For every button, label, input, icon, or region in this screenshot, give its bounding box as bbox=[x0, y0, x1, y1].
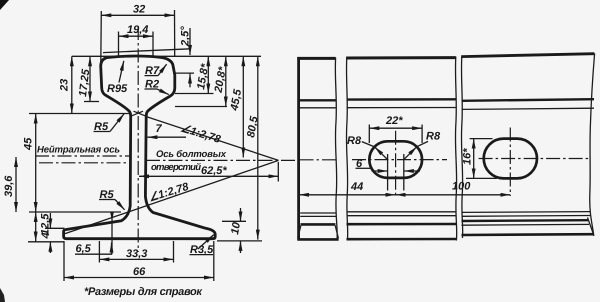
svg-text:отверстий: отверстий bbox=[151, 162, 201, 173]
svg-text:2,5°: 2,5° bbox=[180, 26, 192, 47]
panel 3 top edge bbox=[461, 54, 594, 57]
svg-text:*Размеры для справок: *Размеры для справок bbox=[84, 286, 203, 298]
scan artifact top-left corner bbox=[0, 0, 9, 10]
ext 22 left bbox=[368, 125, 370, 144]
bolt hole 2 (stadium) bbox=[484, 139, 537, 179]
svg-text:33,3: 33,3 bbox=[126, 248, 147, 260]
svg-text:62,5*: 62,5* bbox=[201, 165, 227, 177]
ext tick 17,25 bbox=[84, 101, 99, 103]
svg-text:22*: 22* bbox=[385, 115, 403, 127]
svg-text:100: 100 bbox=[452, 181, 471, 193]
6,5 underline leader bbox=[75, 246, 112, 254]
6-dim center marks bbox=[387, 154, 389, 191]
ext line 32 right bbox=[174, 10, 176, 56]
hole 1 vertical centerline bbox=[395, 131, 397, 198]
svg-text:6,5: 6,5 bbox=[75, 243, 91, 255]
panel 3 break line left bbox=[461, 57, 462, 239]
svg-text:R8: R8 bbox=[426, 131, 441, 143]
dim 4 upper seg bbox=[49, 213, 51, 228]
ext tick right of 62,5 bbox=[277, 162, 279, 182]
hole 2 horizontal centerline bbox=[479, 158, 589, 160]
svg-text:Нейтральная ось: Нейтральная ось bbox=[37, 145, 120, 156]
dim 19,4 line bbox=[119, 35, 154, 37]
scan artifact bottom-left corner bbox=[0, 288, 5, 302]
svg-text:66: 66 bbox=[133, 266, 146, 278]
bolt axis line right bbox=[146, 159, 297, 161]
panel 1 axis bbox=[300, 159, 339, 161]
panel 3 foot thin lines bbox=[462, 211, 591, 214]
panel 1 left edge (rail end face) bbox=[297, 57, 300, 241]
leader down arrow at flare bbox=[111, 212, 113, 221]
svg-text:19,4: 19,4 bbox=[127, 24, 148, 36]
svg-text:16*: 16* bbox=[462, 148, 474, 165]
svg-text:R8: R8 bbox=[347, 135, 362, 147]
dim 23 bbox=[71, 56, 73, 113]
dim 10 lower seg bbox=[240, 241, 242, 253]
panel 1 foot left flare bbox=[298, 226, 301, 239]
lower slope line 1:2,78 bbox=[64, 160, 279, 234]
leader 2,5 lower arrow bbox=[189, 74, 191, 88]
ext line below foot x=99.4 bbox=[98, 241, 100, 263]
svg-text:32: 32 bbox=[133, 4, 145, 16]
svg-text:7: 7 bbox=[155, 123, 162, 135]
panel 3 head-web line bbox=[462, 108, 595, 109]
dim 7 web with arrows bbox=[147, 136, 186, 138]
panel 1 head side edge bbox=[300, 99, 336, 101]
ext line 19,4 right bbox=[152, 32, 154, 57]
ext line 32 left bbox=[100, 11, 103, 64]
6 leader underline bbox=[356, 167, 372, 169]
dim 45 vertical bbox=[35, 114, 37, 213]
6-dim left arrow bbox=[372, 170, 388, 172]
svg-text:44: 44 bbox=[350, 181, 363, 193]
leader 2,5 upper arrow bbox=[189, 28, 191, 55]
svg-text:39,6: 39,6 bbox=[3, 175, 15, 197]
ext line flare vertical bbox=[111, 221, 113, 254]
panel 3 head side edge bbox=[462, 99, 595, 101]
panel 3 foot right flare bbox=[588, 218, 594, 235]
ext line 15,8 bbox=[175, 93, 214, 95]
dim 12,5 bbox=[35, 212, 37, 242]
R8 right radius arrow bbox=[404, 147, 417, 160]
panel 1 top edge bbox=[297, 57, 335, 60]
dim 15,8 bbox=[207, 56, 209, 93]
panel 2 top edge bbox=[346, 56, 456, 59]
dim 10 upper seg bbox=[240, 208, 242, 221]
panel 1 foot thin lines bbox=[300, 212, 336, 214]
top reference line bbox=[72, 55, 261, 57]
ext line foot edge top bbox=[45, 227, 65, 229]
bolt hole 1 (stadium 22x16) bbox=[369, 141, 422, 178]
R8 left radius arrow bbox=[375, 147, 388, 160]
panel 2 head side edge bbox=[347, 98, 456, 101]
dim 66 bbox=[64, 277, 214, 279]
vertical centerline of rail bbox=[137, 26, 139, 252]
head-web junction X detail bbox=[131, 111, 146, 116]
panel 2 foot bottom bbox=[347, 238, 457, 241]
hole 1 horizontal centerline bbox=[352, 159, 447, 161]
dim 20,8 bbox=[225, 56, 227, 106]
hole 2 vertical centerline bbox=[509, 128, 511, 197]
dim 33,3 bbox=[99, 258, 173, 260]
dim 80,5 bbox=[257, 56, 259, 239]
dim 39,6 bbox=[15, 157, 17, 212]
dim 22 bbox=[369, 127, 422, 129]
rail outline (head, web, foot) bbox=[64, 56, 216, 239]
panel 2 foot thin lines bbox=[347, 211, 457, 213]
svg-text:12,5: 12,5 bbox=[40, 213, 52, 235]
ext line 2,5 bbox=[173, 72, 194, 74]
svg-text:23: 23 bbox=[59, 79, 71, 92]
ext line foot bottom left bbox=[28, 241, 64, 243]
ext line 20,8 bbox=[175, 106, 227, 108]
dim 44 line bbox=[299, 194, 396, 196]
dim 62,5 bbox=[139, 175, 278, 177]
ext line foot upper ref bbox=[29, 211, 121, 213]
ext line 19,4 left bbox=[118, 32, 120, 57]
svg-text:45: 45 bbox=[23, 137, 35, 151]
panel 3 foot bottom bbox=[462, 233, 594, 236]
panel 1 foot right flare bbox=[335, 226, 338, 239]
dim 17,25 bbox=[89, 56, 91, 101]
6,5 up arrow bbox=[111, 243, 113, 252]
ext line below foot right x=213.5 bbox=[213, 241, 215, 281]
dim 16 bbox=[473, 139, 475, 179]
ext 22 right bbox=[421, 125, 423, 144]
svg-text:4: 4 bbox=[40, 232, 52, 239]
ext 16 top bbox=[470, 138, 493, 140]
svg-text:R95: R95 bbox=[107, 83, 128, 95]
panel 2 break line right bbox=[455, 57, 456, 241]
ext line 10 upper bbox=[222, 220, 246, 222]
panel 1 foot bottom bbox=[298, 238, 339, 241]
ext 16 bottom bbox=[466, 177, 497, 179]
svg-text:Ось болтовых: Ось болтовых bbox=[156, 149, 227, 160]
panel 3 foot lower thin bbox=[462, 223, 590, 226]
ext line foot bottom right bbox=[217, 240, 262, 242]
panel 3 foot edge thick bbox=[462, 219, 589, 222]
dim 100 line bbox=[396, 194, 511, 196]
panel 2 break line left bbox=[346, 57, 347, 241]
neutral axis line bbox=[35, 155, 131, 157]
panel 1 break line right bbox=[335, 58, 337, 241]
bolt axis line left bbox=[39, 162, 131, 164]
ext line below foot left x=64 bbox=[63, 241, 65, 281]
tangent line 2,5 deg bbox=[103, 49, 191, 53]
6-dim right arrow bbox=[404, 170, 420, 172]
dim 4 lower seg bbox=[49, 242, 51, 253]
panel 3 break line right bbox=[590, 54, 595, 237]
upper slope line 1:2,78 bbox=[146, 117, 279, 161]
panel 2 head-web line bbox=[347, 107, 456, 109]
panel 2 foot edge thick bbox=[347, 223, 457, 226]
dim 32 line bbox=[101, 14, 174, 16]
panel 1 foot edge thick bbox=[301, 223, 336, 226]
ext line head bottom bbox=[29, 113, 129, 115]
dim 45,5 bbox=[242, 56, 244, 157]
panel 1 head-web line bbox=[300, 107, 336, 109]
ext line below foot x=173.5 bbox=[173, 241, 175, 263]
